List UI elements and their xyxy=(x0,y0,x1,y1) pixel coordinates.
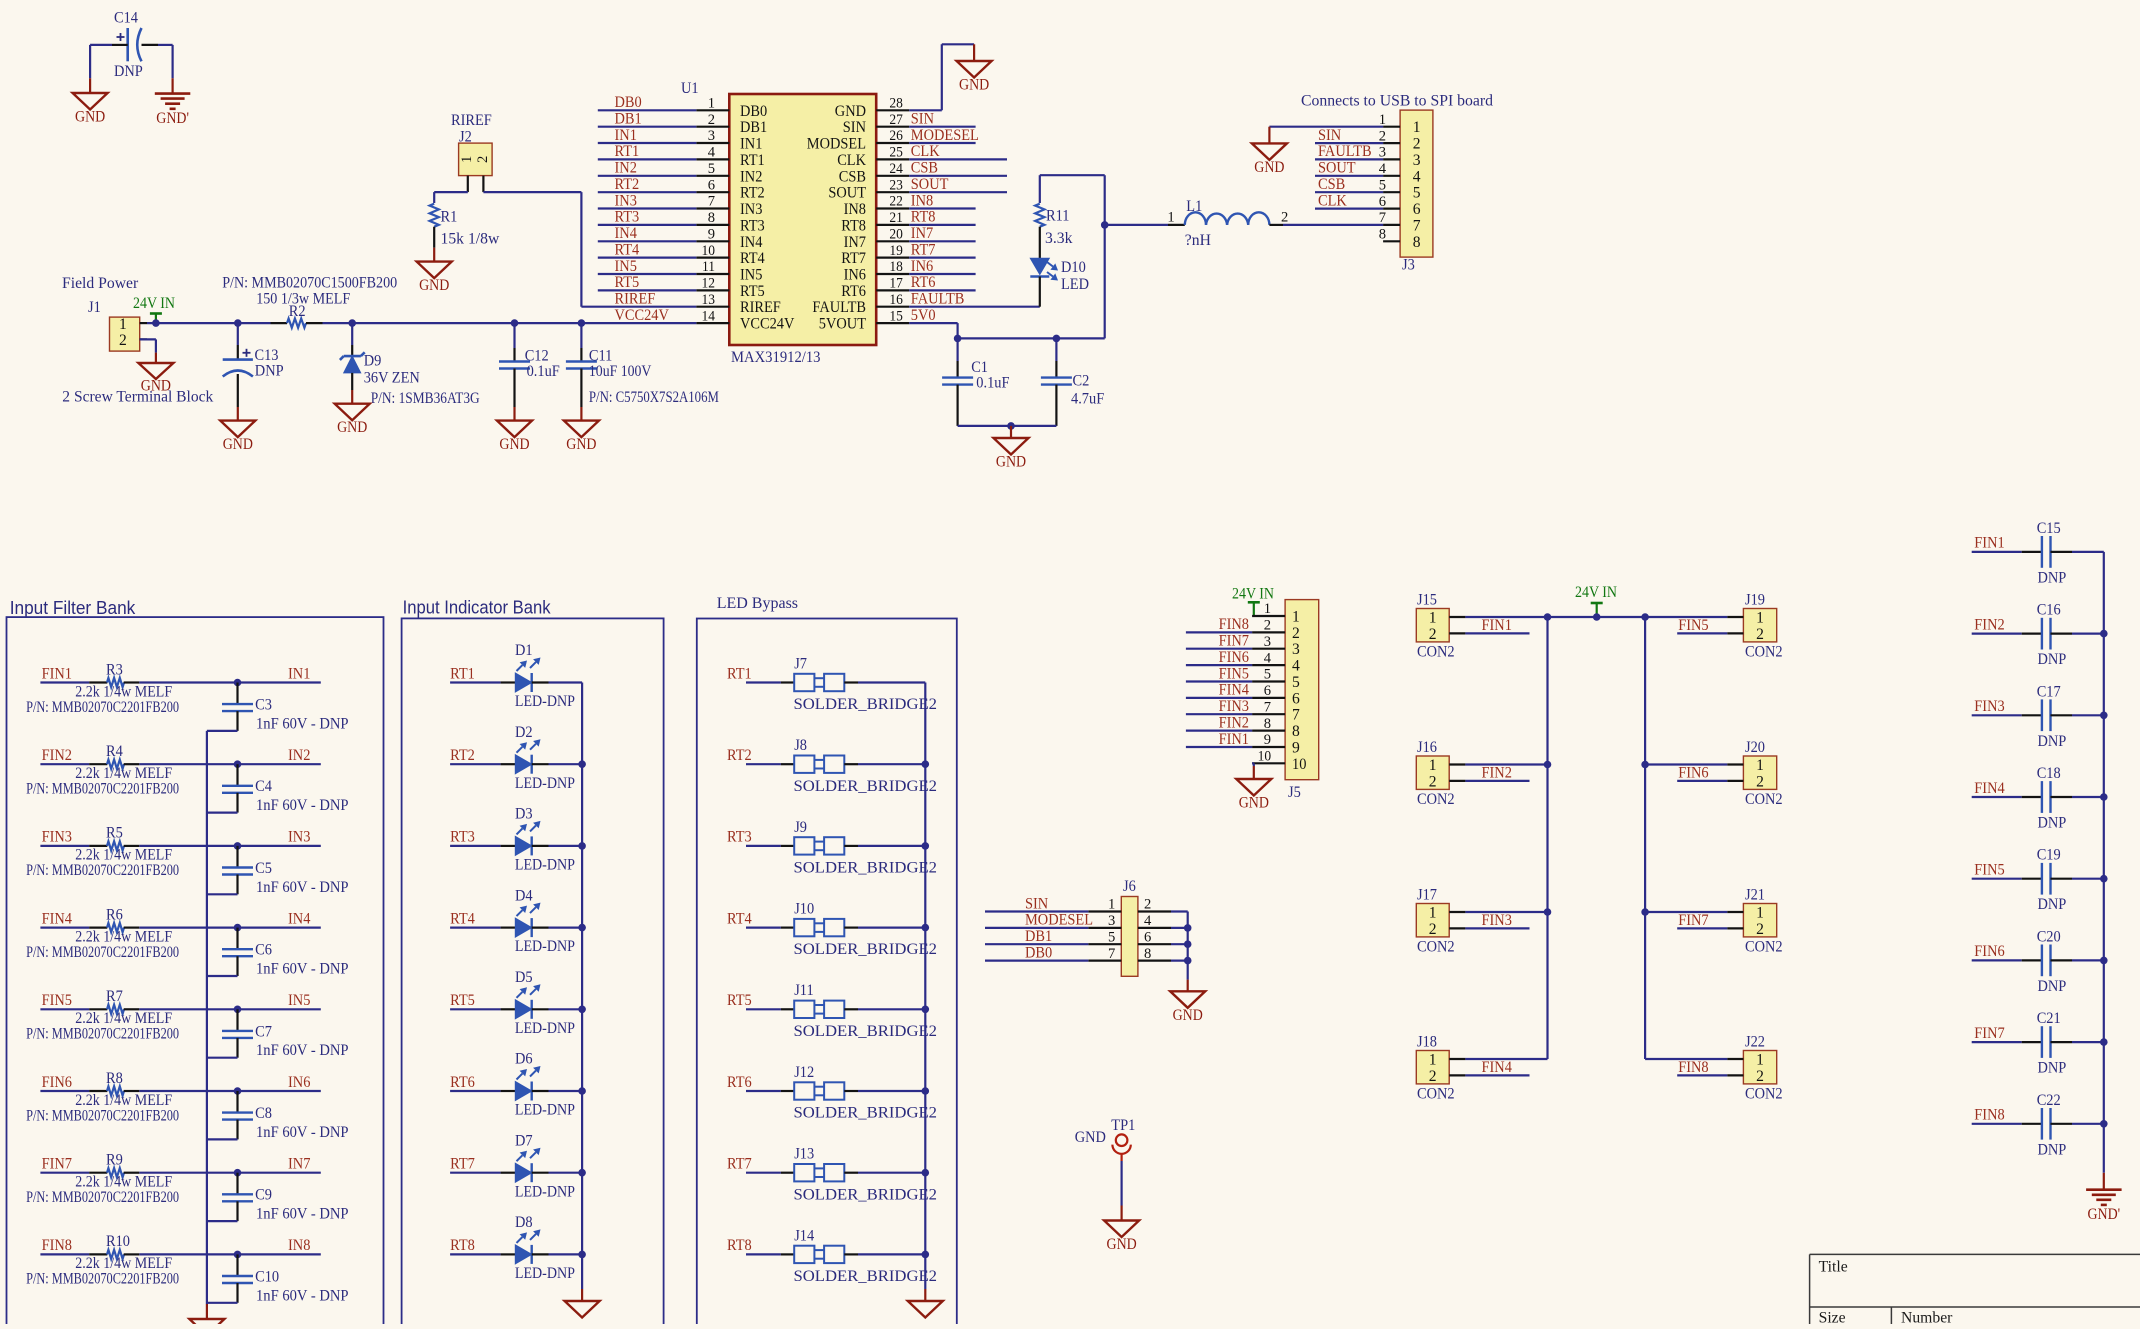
pin 17 (RT6) of U1 xyxy=(841,276,909,300)
svg-text:RT8: RT8 xyxy=(450,1237,475,1254)
wire xyxy=(1315,158,1383,160)
svg-text:VCC24V: VCC24V xyxy=(740,316,795,333)
svg-text:3: 3 xyxy=(1108,913,1115,929)
wire xyxy=(1677,632,1727,634)
svg-text:CSB: CSB xyxy=(1318,176,1345,193)
wire (J3 pin1 to GND) xyxy=(1269,126,1383,128)
svg-text:SOLDER_BRIDGE2: SOLDER_BRIDGE2 xyxy=(794,1023,938,1040)
testpoint TP1 xyxy=(1075,1117,1136,1161)
svg-text:P/N: MMB02070C2201FB200: P/N: MMB02070C2201FB200 xyxy=(26,1189,179,1206)
resistor R4 xyxy=(89,743,139,769)
svg-text:P/N: MMB02070C1500FB200: P/N: MMB02070C1500FB200 xyxy=(222,275,397,292)
svg-text:RT3: RT3 xyxy=(450,829,475,846)
svg-text:RT2: RT2 xyxy=(740,185,765,202)
resistor R3 xyxy=(89,661,139,687)
svg-text:8: 8 xyxy=(1292,723,1300,740)
led D2 xyxy=(501,724,575,792)
svg-text:C13: C13 xyxy=(255,347,279,364)
svg-text:?nH: ?nH xyxy=(1185,232,1212,249)
wire xyxy=(139,845,320,847)
junction xyxy=(922,1006,930,1014)
wire xyxy=(1171,943,1188,945)
svg-text:2.2k 1/4w MELF: 2.2k 1/4w MELF xyxy=(75,1174,172,1191)
junction xyxy=(922,1251,930,1259)
svg-text:CLK: CLK xyxy=(911,143,940,160)
led D10 xyxy=(1030,258,1089,306)
svg-text:1: 1 xyxy=(1413,119,1421,136)
connector J2 xyxy=(459,129,493,193)
svg-text:28: 28 xyxy=(889,96,903,112)
svg-text:J8: J8 xyxy=(794,737,807,754)
svg-text:2: 2 xyxy=(1756,773,1764,790)
note text R7 value xyxy=(26,1010,179,1043)
svg-text:CON2: CON2 xyxy=(1417,791,1455,808)
svg-text:1: 1 xyxy=(1429,610,1437,627)
svg-text:RT4: RT4 xyxy=(450,910,475,927)
svg-text:6: 6 xyxy=(1292,690,1300,707)
wire xyxy=(1972,632,2022,634)
ground GND (C13) xyxy=(220,407,255,453)
svg-text:26: 26 xyxy=(889,128,903,144)
svg-text:SIN: SIN xyxy=(1025,895,1049,912)
svg-text:CON2: CON2 xyxy=(1417,643,1455,660)
wire xyxy=(746,1172,781,1174)
svg-text:D1: D1 xyxy=(515,642,533,659)
wire xyxy=(1645,911,1727,913)
svg-text:C5: C5 xyxy=(255,860,272,877)
resistor R10 xyxy=(89,1233,139,1259)
wire xyxy=(598,109,697,111)
ground GND (J3 pin1) xyxy=(1252,127,1287,176)
connector J17 xyxy=(1416,887,1465,956)
svg-text:18: 18 xyxy=(889,259,903,275)
svg-text:2: 2 xyxy=(1756,1068,1764,1085)
svg-text:GND': GND' xyxy=(156,110,189,127)
svg-text:R1: R1 xyxy=(441,209,458,226)
svg-text:GND: GND xyxy=(223,436,253,453)
wire xyxy=(450,1090,501,1092)
led D8 xyxy=(501,1214,575,1282)
wire xyxy=(746,1008,781,1010)
svg-text:J18: J18 xyxy=(1417,1034,1437,1051)
wire xyxy=(207,730,238,732)
svg-text:DB0: DB0 xyxy=(1025,944,1052,961)
svg-text:FIN8: FIN8 xyxy=(1974,1107,2004,1124)
capacitor C21 xyxy=(2022,1010,2072,1077)
note text R5 value xyxy=(26,847,179,880)
wire xyxy=(450,763,501,765)
wire xyxy=(158,45,173,78)
svg-text:SIN: SIN xyxy=(843,119,867,136)
svg-text:C18: C18 xyxy=(2037,765,2061,782)
svg-text:FIN1: FIN1 xyxy=(1219,731,1249,748)
svg-text:FIN3: FIN3 xyxy=(1482,912,1512,929)
wire xyxy=(1972,1041,2022,1043)
capacitor C12 xyxy=(499,323,560,407)
resistor R6 xyxy=(89,906,139,932)
svg-text:RT7: RT7 xyxy=(911,241,936,258)
led D5 xyxy=(501,969,575,1037)
svg-text:17: 17 xyxy=(889,276,903,292)
wire (L1 to J3 pin7) xyxy=(1269,224,1383,226)
svg-text:FIN6: FIN6 xyxy=(1219,649,1249,666)
svg-text:10uF 100V: 10uF 100V xyxy=(589,363,652,380)
junction xyxy=(578,1087,586,1095)
svg-text:1nF 60V - DNP: 1nF 60V - DNP xyxy=(256,715,349,732)
wire xyxy=(2072,1041,2104,1043)
note text R8 value xyxy=(26,1092,179,1125)
wire xyxy=(858,763,925,765)
junction xyxy=(2100,957,2108,965)
wire xyxy=(598,289,697,291)
svg-text:RT2: RT2 xyxy=(450,747,475,764)
capacitor C1 xyxy=(942,338,1009,426)
svg-text:J5: J5 xyxy=(1288,784,1301,801)
wire xyxy=(858,1253,925,1255)
junction xyxy=(348,319,356,327)
svg-text:2: 2 xyxy=(1429,773,1437,790)
svg-text:Title: Title xyxy=(1819,1259,1848,1276)
svg-text:RT5: RT5 xyxy=(740,283,765,300)
svg-text:C22: C22 xyxy=(2037,1092,2061,1109)
svg-text:FIN5: FIN5 xyxy=(1219,665,1249,682)
svg-text:P/N: MMB02070C2201FB200: P/N: MMB02070C2201FB200 xyxy=(26,781,179,798)
svg-text:15k 1/8w: 15k 1/8w xyxy=(441,231,500,248)
resistor R5 xyxy=(89,825,139,851)
ground (indicator bank) xyxy=(565,1289,600,1318)
svg-text:R10: R10 xyxy=(106,1233,130,1250)
svg-text:13: 13 xyxy=(702,292,716,308)
svg-text:2: 2 xyxy=(1756,626,1764,643)
capacitor C15 xyxy=(2022,520,2072,587)
resistor R9 xyxy=(89,1152,139,1178)
junction xyxy=(2100,793,2108,801)
junction xyxy=(1544,613,1552,621)
svg-text:FAULTB: FAULTB xyxy=(911,291,965,308)
wire xyxy=(1465,1074,1529,1076)
junction xyxy=(1053,335,1061,343)
svg-text:FIN5: FIN5 xyxy=(1974,862,2004,879)
junction xyxy=(1007,422,1015,430)
wire xyxy=(1171,910,1188,912)
svg-text:RIREF: RIREF xyxy=(451,112,492,129)
svg-text:P/N: MMB02070C2201FB200: P/N: MMB02070C2201FB200 xyxy=(26,1026,179,1043)
svg-text:36V ZEN: 36V ZEN xyxy=(364,370,420,387)
junction xyxy=(1544,908,1552,916)
junction xyxy=(1593,613,1601,621)
svg-text:FIN7: FIN7 xyxy=(1974,1025,2004,1042)
svg-text:CON2: CON2 xyxy=(1417,938,1455,955)
junction xyxy=(1184,940,1192,948)
junction xyxy=(578,760,586,768)
svg-text:4: 4 xyxy=(1292,658,1300,675)
svg-text:CSB: CSB xyxy=(839,168,866,185)
svg-text:IN2: IN2 xyxy=(740,168,762,185)
wire xyxy=(1645,1058,1727,1060)
svg-text:22: 22 xyxy=(889,194,903,210)
capacitor C3 xyxy=(222,683,349,733)
wire xyxy=(2072,551,2104,553)
junction xyxy=(234,842,242,850)
pin 28 (GND) of U1 xyxy=(835,96,909,120)
svg-text:150 1/3w MELF: 150 1/3w MELF xyxy=(256,290,350,307)
junction xyxy=(922,842,930,850)
wire xyxy=(549,845,583,847)
svg-text:J22: J22 xyxy=(1745,1034,1765,1051)
svg-text:J16: J16 xyxy=(1417,739,1437,756)
wire (top rail of R11 loop) xyxy=(1040,175,1105,203)
resistor R8 xyxy=(89,1070,139,1096)
svg-text:5VOUT: 5VOUT xyxy=(819,316,866,333)
svg-text:7: 7 xyxy=(1379,210,1387,226)
wire xyxy=(549,1172,583,1174)
power port 24V IN (J1) xyxy=(133,295,175,323)
svg-text:C6: C6 xyxy=(255,942,272,959)
wire xyxy=(909,289,975,291)
wire xyxy=(40,1090,89,1092)
svg-text:DNP: DNP xyxy=(2038,978,2067,995)
svg-text:SOLDER_BRIDGE2: SOLDER_BRIDGE2 xyxy=(794,860,938,877)
capacitor C18 xyxy=(2022,765,2072,832)
wire xyxy=(1315,142,1383,144)
wire xyxy=(1186,746,1252,748)
wire (C1/C2 bottom rail) xyxy=(958,425,1057,427)
wire xyxy=(1972,796,2022,798)
svg-text:DB1: DB1 xyxy=(615,111,642,128)
pin 11 (IN5) of U1 xyxy=(696,259,762,283)
wire xyxy=(985,910,1088,912)
svg-text:FIN1: FIN1 xyxy=(1482,617,1512,634)
svg-text:8: 8 xyxy=(1144,946,1151,962)
pin 3 (IN1) of U1 xyxy=(696,128,762,152)
svg-text:DNP: DNP xyxy=(2038,1060,2067,1077)
svg-text:J9: J9 xyxy=(794,819,807,836)
svg-text:RT7: RT7 xyxy=(727,1156,752,1173)
pin 24 (CSB) of U1 xyxy=(839,161,909,185)
svg-text:P/N: MMB02070C2201FB200: P/N: MMB02070C2201FB200 xyxy=(26,944,179,961)
svg-text:3.3k: 3.3k xyxy=(1045,230,1072,247)
svg-text:FIN8: FIN8 xyxy=(1219,616,1249,633)
svg-text:RIREF: RIREF xyxy=(740,299,781,316)
svg-text:DNP: DNP xyxy=(114,63,143,80)
svg-text:GND: GND xyxy=(141,378,171,395)
svg-text:3: 3 xyxy=(708,128,715,144)
svg-text:2: 2 xyxy=(119,332,127,349)
wire xyxy=(2072,632,2104,634)
svg-text:IN2: IN2 xyxy=(615,160,637,177)
svg-text:C2: C2 xyxy=(1073,373,1090,390)
connector J20 xyxy=(1727,739,1782,808)
wire (24V rail to U1) xyxy=(323,322,697,324)
svg-text:7: 7 xyxy=(708,194,716,210)
wire (to L1) xyxy=(1105,224,1185,226)
resistor R1 xyxy=(430,204,500,248)
wire xyxy=(207,811,238,813)
ic U1 MAX31912/13 body xyxy=(681,80,876,366)
svg-text:J7: J7 xyxy=(794,655,807,672)
svg-text:FIN2: FIN2 xyxy=(42,747,72,764)
svg-text:9: 9 xyxy=(1292,740,1300,757)
svg-text:SOUT: SOUT xyxy=(828,185,866,202)
svg-text:C7: C7 xyxy=(255,1023,272,1040)
wire xyxy=(139,1253,320,1255)
svg-text:IN8: IN8 xyxy=(844,201,866,218)
wire xyxy=(450,845,501,847)
svg-text:R6: R6 xyxy=(106,906,123,923)
svg-text:P/N: MMB02070C2201FB200: P/N: MMB02070C2201FB200 xyxy=(26,699,179,716)
wire xyxy=(1186,729,1252,731)
solder bridge J11 xyxy=(781,982,937,1040)
svg-text:15: 15 xyxy=(889,308,903,324)
svg-text:4: 4 xyxy=(1144,913,1152,929)
wire (filter bank ground rail) xyxy=(206,731,208,1304)
wire xyxy=(139,1008,320,1010)
svg-text:1nF 60V - DNP: 1nF 60V - DNP xyxy=(256,1206,349,1223)
svg-text:5: 5 xyxy=(708,161,715,177)
svg-text:RT3: RT3 xyxy=(727,829,752,846)
pin 2 (DB1) of U1 xyxy=(696,112,767,136)
svg-text:D7: D7 xyxy=(515,1132,533,1149)
svg-text:CSB: CSB xyxy=(911,160,938,177)
svg-text:GND: GND xyxy=(337,419,367,436)
wire xyxy=(1972,959,2022,961)
diode D9 zener xyxy=(340,323,420,390)
svg-text:C19: C19 xyxy=(2037,847,2061,864)
svg-text:2: 2 xyxy=(1429,921,1437,938)
wire xyxy=(450,681,501,683)
svg-text:P/N: MMB02070C2201FB200: P/N: MMB02070C2201FB200 xyxy=(26,1271,179,1288)
wire xyxy=(450,926,501,928)
svg-text:1: 1 xyxy=(459,156,475,163)
junction xyxy=(2100,1120,2108,1128)
ground GND (J6) xyxy=(1170,980,1205,1024)
svg-text:5V0: 5V0 xyxy=(911,307,936,324)
svg-text:FIN4: FIN4 xyxy=(42,910,72,927)
svg-text:GND': GND' xyxy=(2087,1206,2120,1223)
ground GND (D9) xyxy=(335,390,370,436)
svg-text:IN4: IN4 xyxy=(615,225,637,242)
pin 14 (VCC24V) of U1 xyxy=(696,308,795,332)
svg-text:DNP: DNP xyxy=(2038,569,2067,586)
svg-text:J6: J6 xyxy=(1123,878,1136,895)
junction xyxy=(234,924,242,932)
svg-text:GND: GND xyxy=(419,277,449,294)
svg-text:RT8: RT8 xyxy=(727,1237,752,1254)
wire xyxy=(2072,959,2104,961)
wire (left 24V bus) xyxy=(1546,617,1548,1059)
svg-text:FIN6: FIN6 xyxy=(42,1074,72,1091)
wire xyxy=(40,763,89,765)
wire xyxy=(858,845,925,847)
svg-text:RT2: RT2 xyxy=(727,747,752,764)
wire xyxy=(40,845,89,847)
svg-text:1: 1 xyxy=(1264,601,1271,617)
svg-text:FIN2: FIN2 xyxy=(1219,714,1249,731)
note text R2 P/N xyxy=(222,275,397,308)
svg-text:5: 5 xyxy=(1264,667,1271,683)
svg-text:IN5: IN5 xyxy=(740,267,762,284)
svg-text:VCC24V: VCC24V xyxy=(615,307,670,324)
svg-text:C16: C16 xyxy=(2037,602,2061,619)
svg-text:23: 23 xyxy=(889,177,903,193)
pin 4 (RT1) of U1 xyxy=(696,145,764,169)
wire xyxy=(598,207,697,209)
pin 9 (IN4) of U1 xyxy=(696,227,762,251)
wire xyxy=(1465,632,1529,634)
junction xyxy=(234,1087,242,1095)
wire xyxy=(207,975,238,977)
wire xyxy=(450,1253,501,1255)
svg-text:D4: D4 xyxy=(515,887,533,904)
svg-text:LED-DNP: LED-DNP xyxy=(515,1183,575,1200)
wire xyxy=(2072,1123,2104,1125)
wire xyxy=(549,1253,583,1255)
svg-text:19: 19 xyxy=(889,243,903,259)
svg-text:9: 9 xyxy=(1264,732,1271,748)
wire xyxy=(1465,763,1547,765)
wire xyxy=(858,1090,925,1092)
svg-text:2: 2 xyxy=(1756,921,1764,938)
wire xyxy=(549,681,583,683)
junction xyxy=(2100,712,2108,720)
svg-text:6: 6 xyxy=(1264,683,1272,699)
svg-text:SIN: SIN xyxy=(911,111,935,128)
svg-text:J11: J11 xyxy=(794,982,814,999)
svg-text:10: 10 xyxy=(1258,749,1272,765)
svg-text:2: 2 xyxy=(1429,1068,1437,1085)
wire xyxy=(909,322,957,324)
solder bridge J13 xyxy=(781,1146,937,1204)
svg-text:IN5: IN5 xyxy=(288,992,310,1009)
wire (J5 pin10 to GND) xyxy=(1252,763,1254,766)
svg-text:D3: D3 xyxy=(515,806,533,823)
solder bridge J7 xyxy=(781,655,937,713)
svg-text:P/N: MMB02070C2201FB200: P/N: MMB02070C2201FB200 xyxy=(26,1107,179,1124)
wire xyxy=(909,191,1007,193)
wire xyxy=(207,893,238,895)
svg-text:1nF 60V - DNP: 1nF 60V - DNP xyxy=(256,961,349,978)
junction xyxy=(234,760,242,768)
svg-text:C8: C8 xyxy=(255,1105,272,1122)
svg-text:D8: D8 xyxy=(515,1214,533,1231)
wire xyxy=(207,1138,238,1140)
svg-text:J20: J20 xyxy=(1745,739,1765,756)
svg-text:J21: J21 xyxy=(1745,887,1765,904)
svg-text:1nF 60V - DNP: 1nF 60V - DNP xyxy=(256,879,349,896)
wire xyxy=(207,1220,238,1222)
svg-text:RT7: RT7 xyxy=(450,1156,475,1173)
svg-text:GND: GND xyxy=(1239,795,1269,812)
svg-text:5: 5 xyxy=(1379,177,1386,193)
svg-text:2.2k 1/4w MELF: 2.2k 1/4w MELF xyxy=(75,928,172,945)
svg-text:6: 6 xyxy=(708,177,716,193)
svg-text:FIN2: FIN2 xyxy=(1482,764,1512,781)
svg-text:CON2: CON2 xyxy=(1745,938,1783,955)
svg-text:3: 3 xyxy=(1292,641,1300,658)
svg-text:C20: C20 xyxy=(2037,928,2061,945)
svg-text:J15: J15 xyxy=(1417,592,1437,609)
wire xyxy=(1315,191,1383,193)
svg-text:P/N: C5750X7S2A106M: P/N: C5750X7S2A106M xyxy=(589,389,719,406)
capacitor C4 xyxy=(222,764,349,814)
pin 12 (RT5) of U1 xyxy=(696,276,764,300)
wire xyxy=(40,681,89,683)
svg-text:J12: J12 xyxy=(794,1064,814,1081)
svg-text:2 Screw Terminal Block: 2 Screw Terminal Block xyxy=(62,389,213,406)
wire xyxy=(549,763,583,765)
svg-text:1: 1 xyxy=(1292,609,1300,626)
svg-text:RT6: RT6 xyxy=(727,1074,752,1091)
